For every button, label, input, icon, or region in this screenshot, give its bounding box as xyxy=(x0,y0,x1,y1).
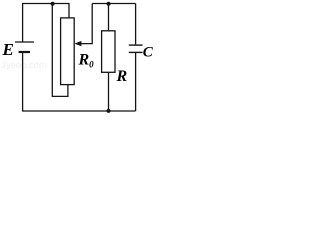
capacitor C bottom plate xyxy=(129,51,143,53)
svg-text:R: R xyxy=(116,68,128,85)
wire: capacitor bottom lead xyxy=(135,53,137,111)
svg-text:Jyeoo.com: Jyeoo.com xyxy=(1,60,47,71)
svg-text:C: C xyxy=(143,45,154,61)
rheostat R0 body xyxy=(61,18,75,85)
svg-text:E: E xyxy=(2,40,14,59)
wire: branch from node A down, around to R0 bottom terminal xyxy=(52,4,68,97)
node B (junction dot top-right) xyxy=(107,2,111,6)
background xyxy=(0,0,154,116)
capacitor C top plate xyxy=(129,44,143,46)
wire: capacitor top lead xyxy=(135,4,137,45)
wire: left vertical lower (battery bottom lead) xyxy=(22,52,24,111)
node A (junction dot top-left) xyxy=(51,2,55,6)
wire: R bottom terminal xyxy=(108,72,110,111)
wiper arrow of R0 xyxy=(81,4,93,44)
resistor R body xyxy=(102,31,115,73)
wire: left vertical upper (battery top lead) xyxy=(22,4,24,43)
wire: R top terminal xyxy=(108,4,110,31)
wire: top right horizontal xyxy=(92,3,135,5)
battery E long plate xyxy=(15,41,34,43)
wire: top left horizontal xyxy=(22,3,70,5)
wire: bottom horizontal xyxy=(22,110,136,112)
battery E short plate xyxy=(19,51,30,53)
wire: R0 top terminal xyxy=(68,4,70,19)
node C (junction dot bottom) xyxy=(107,109,111,113)
